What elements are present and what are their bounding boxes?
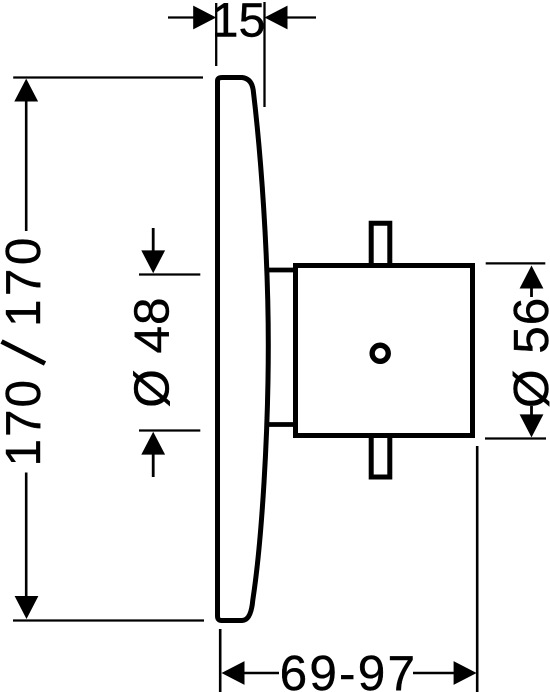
dim 170/170: lower dimension line [25,473,28,598]
dim 170/170: top extension line [13,76,203,78]
collar top line [265,268,298,273]
svg-text:170: 170 [0,378,51,467]
dim 69-97: left leader line [244,672,280,675]
dim O56: bottom extension line [485,437,546,439]
top tab [371,223,390,264]
square handle body [296,266,473,436]
svg-text:Ø 48: Ø 48 [124,296,179,407]
svg-text:15: 15 [212,0,266,48]
dim 69-97: left arrowhead [222,661,245,685]
dim O48: upper arrowhead (down) [141,250,165,273]
dim O48: lower leader line [152,454,155,477]
dim O56: upper stub line [530,287,533,297]
dim 69-97: right arrowhead [454,661,477,685]
center button circle [372,345,388,361]
dim O48: lower arrowhead (up) [141,432,165,455]
dim 69-97: right extension line [476,446,479,692]
collar bottom line [265,422,298,427]
dim 69-97: right leader line [413,672,454,675]
dim 170/170: bottom extension line [13,619,204,621]
dim 170/170: slash [2,342,46,364]
svg-text:Ø 56: Ø 56 [504,297,550,408]
svg-text:170: 170 [0,234,51,327]
dim 15: left leader line [168,16,194,18]
escutcheon plate outline (side view) [218,78,269,621]
dim 15: right extension line [263,2,265,107]
dim 15: right arrowhead [265,6,288,30]
bottom tab [371,437,390,477]
dim 170/170: top arrowhead [14,79,38,102]
svg-text:69-97: 69-97 [280,646,418,692]
dim 15: right leader line [287,16,316,18]
dim O48: bottom tick extension [139,429,200,431]
dim 15: left extension line [215,3,217,66]
dim 15: left arrowhead [193,6,216,30]
dim O56: top arrowhead (up) [520,266,544,289]
dim 170/170: bottom arrowhead [15,596,39,619]
dim O48: upper leader line [152,228,155,252]
dim O56: bottom arrowhead (down) [520,414,544,437]
dim O56: top extension line [486,262,546,264]
dim O48: top tick extension [139,273,200,275]
dim O56: lower stub line [530,406,533,415]
dim 69-97: left extension line [219,629,222,692]
dim 170/170: upper dimension line [25,100,28,231]
